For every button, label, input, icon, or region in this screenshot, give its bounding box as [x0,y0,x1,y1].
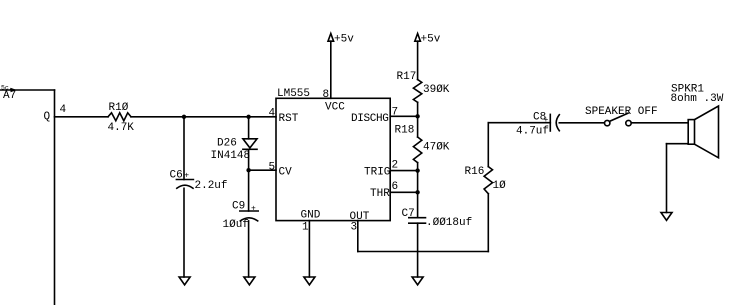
svg-text:R1Ø: R1Ø [109,102,129,114]
svg-text:39ØK: 39ØK [423,84,450,96]
svg-text:C7: C7 [402,208,415,220]
svg-text:8ohm .3W: 8ohm .3W [671,93,724,105]
svg-text:CV: CV [279,167,293,179]
svg-text:.ØØ18uf: .ØØ18uf [426,217,472,229]
svg-text:A7: A7 [3,90,16,102]
svg-text:THR: THR [370,188,390,200]
svg-text:R17: R17 [397,71,417,83]
svg-text:IN4148: IN4148 [211,150,251,162]
svg-text:Q: Q [44,111,51,123]
svg-text:6: 6 [392,181,399,193]
svg-text:R18: R18 [395,125,415,137]
svg-text:4.7K: 4.7K [108,122,135,134]
svg-text:D26: D26 [217,138,237,150]
svg-text:+5v: +5v [334,33,354,45]
svg-text:2: 2 [392,160,399,172]
svg-text:DISCHG: DISCHG [351,113,389,125]
svg-text:1: 1 [302,222,309,234]
svg-text:4: 4 [269,108,276,120]
svg-text:47ØK: 47ØK [423,142,450,154]
svg-text:1Ø: 1Ø [493,180,507,192]
svg-text:TRIG: TRIG [364,167,390,179]
svg-text:+: + [251,205,256,214]
svg-text:4: 4 [60,104,67,116]
svg-text:7: 7 [392,107,399,119]
svg-text:RST: RST [279,113,299,125]
svg-text:8: 8 [323,89,330,101]
svg-text:SPEAKER OFF: SPEAKER OFF [585,106,658,118]
svg-text:3: 3 [351,222,358,234]
svg-text:R16: R16 [465,166,485,178]
svg-text:C6: C6 [170,170,183,182]
svg-text:2.2uf: 2.2uf [195,180,228,192]
svg-text:VCC: VCC [325,102,345,114]
svg-text:GND: GND [301,210,321,222]
svg-text:1Øuf: 1Øuf [223,219,249,231]
svg-text:+5v: +5v [421,33,441,45]
svg-text:LM555: LM555 [277,88,310,100]
svg-text:+: + [184,172,189,181]
svg-text:4.7uf: 4.7uf [516,126,549,138]
svg-text:C9: C9 [232,201,245,213]
svg-text:5: 5 [269,162,276,174]
svg-text:+: + [544,116,549,125]
